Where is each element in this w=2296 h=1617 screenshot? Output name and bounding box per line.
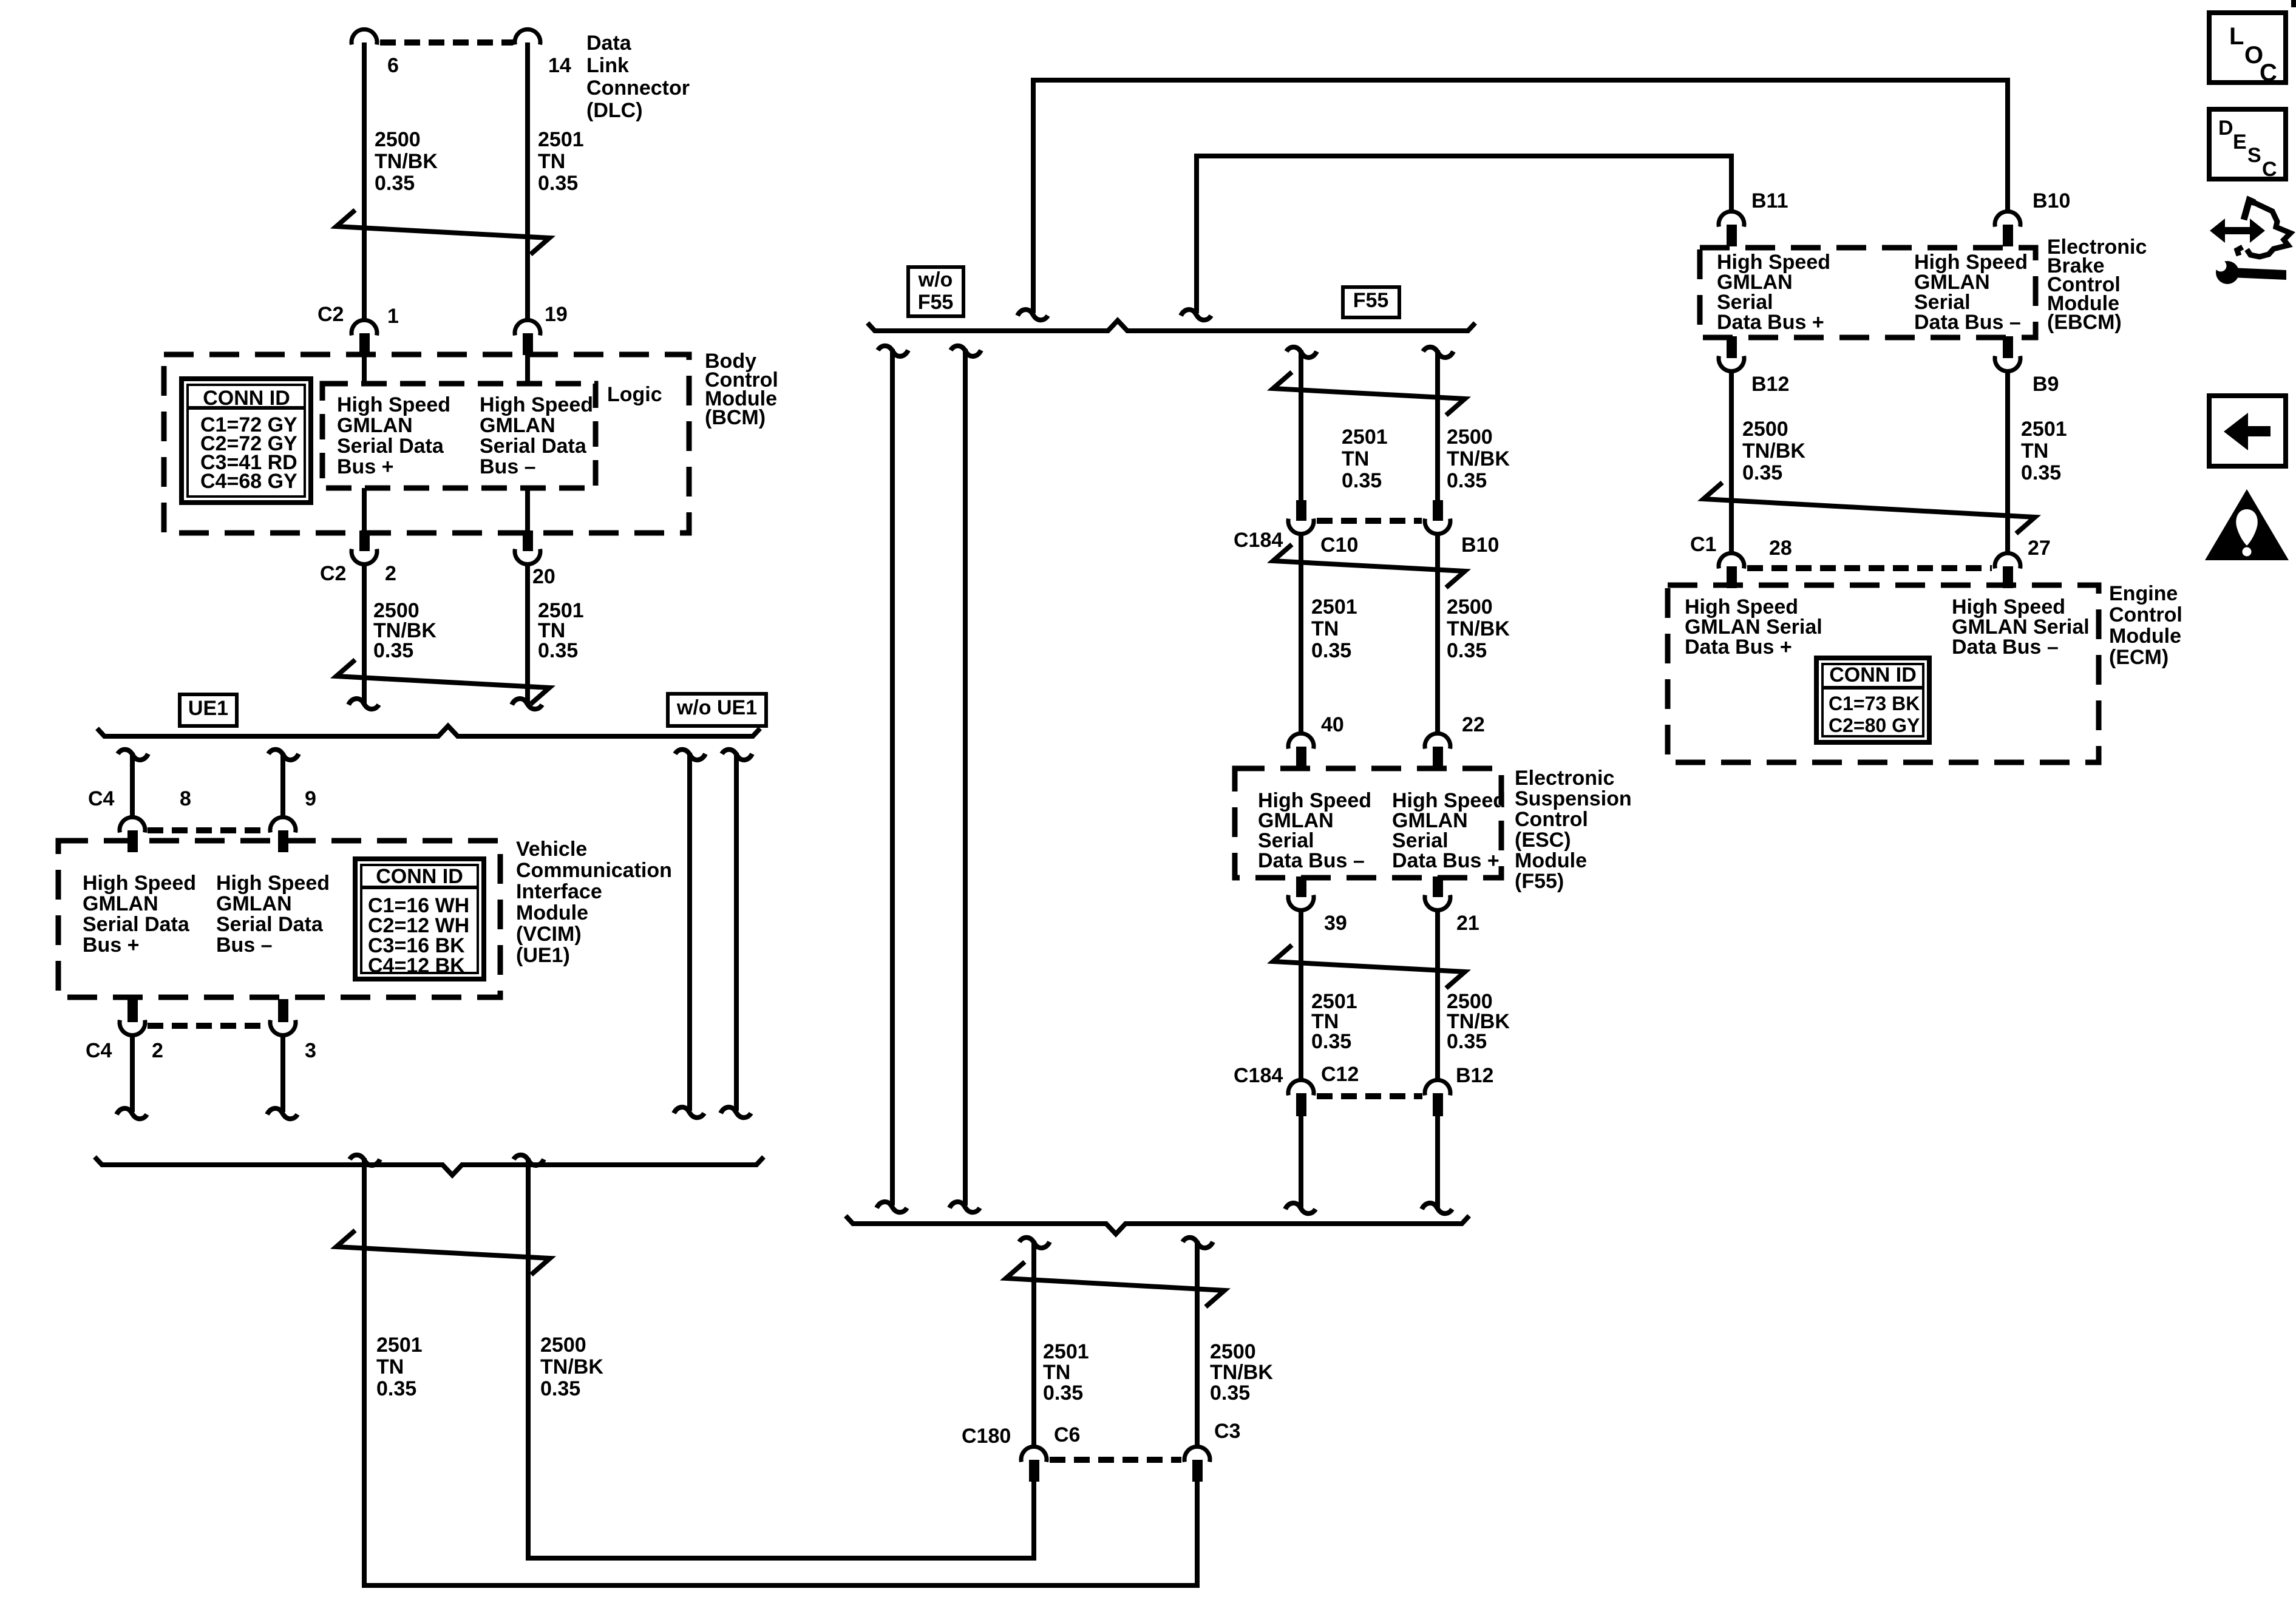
terminal C2 pin 20 [523,531,533,551]
harness crossover BCM wires [336,660,549,704]
option brace UE1 / w-o UE1 [97,726,760,736]
svg-text:TN: TN [2021,439,2048,463]
svg-text:C4: C4 [86,1039,112,1062]
svg-text:Control: Control [1515,808,1588,831]
svg-text:19: 19 [545,303,568,326]
svg-text:2500: 2500 [1742,418,1788,441]
terminal C2 pin 2 [359,531,370,551]
closing brace UE1 options [95,1157,764,1175]
harness crossover ESC lower [1273,945,1465,988]
svg-text:Data Bus +: Data Bus + [1392,849,1500,872]
inline connector C184 terminal B10 [1433,500,1443,521]
module box Engine Control Module (ECM) [1668,585,2099,762]
svg-text:Serial Data: Serial Data [337,435,444,458]
svg-text:C2=80 GY: C2=80 GY [1829,714,1920,736]
harness crossover EBCM wires [1703,483,2035,534]
svg-text:Communication: Communication [516,859,672,882]
wire end hook [877,1202,907,1212]
wire C12 down [1299,1116,1303,1208]
module box Vehicle Communication Interface Module (VCIM) [58,841,500,997]
wire stub pin19 into logic [525,355,530,384]
terminal pin 22 [1425,733,1450,748]
svg-text:GMLAN: GMLAN [480,414,555,437]
svg-text:(UE1): (UE1) [516,944,570,967]
inline connector C184 terminal C10 [1296,500,1306,521]
svg-text:C180: C180 [962,1425,1011,1448]
svg-text:0.35: 0.35 [1311,1030,1351,1053]
svg-text:2501: 2501 [1311,595,1357,619]
svg-text:F55: F55 [1353,289,1389,312]
svg-text:w/o UE1: w/o UE1 [676,696,757,719]
svg-text:TN: TN [538,150,565,173]
svg-text:Data Bus –: Data Bus – [1258,849,1365,872]
svg-text:CONN ID: CONN ID [376,865,463,888]
wire start hook [514,1155,544,1165]
wire end hook [117,1108,147,1119]
wire start hook [1423,347,1453,358]
wire end hook [267,1108,297,1119]
svg-text:2501: 2501 [1342,425,1388,449]
svg-text:(ESC): (ESC) [1515,829,1571,852]
svg-text:0.35: 0.35 [376,1377,416,1400]
inline connector C180 terminal C6 [1021,1446,1047,1462]
wire start hook [675,750,705,760]
option tag w/o F55 [908,267,963,316]
svg-text:27: 27 [2028,537,2051,560]
svg-text:Interface: Interface [516,880,602,903]
svg-text:2501: 2501 [538,128,584,151]
wire 2501 TN to C6 [1031,1241,1036,1446]
wire end hook [674,1107,704,1117]
CONN ID separator [1822,686,1923,690]
CONN ID separator [188,406,305,410]
wire end hook [1017,310,1048,320]
svg-text:B11: B11 [1751,189,1788,212]
svg-text:S: S [2247,144,2261,167]
connector dashed link C1 [1747,565,1992,571]
svg-text:C6: C6 [1054,1423,1080,1446]
svg-text:(F55): (F55) [1515,870,1564,893]
CONN ID separator [361,886,478,889]
svg-text:C12: C12 [1321,1063,1359,1086]
svg-text:Module: Module [516,901,588,924]
svg-text:0.35: 0.35 [538,639,578,662]
svg-text:High Speed: High Speed [480,393,593,416]
svg-text:14: 14 [548,54,571,77]
connector DLC pin 14 terminal [515,29,540,44]
harness crossover below F55 brace [1006,1262,1224,1307]
terminal C2 pin 19 [515,320,540,335]
wire 2501 TN DLC-to-BCM [525,42,530,320]
svg-text:0.35: 0.35 [1311,639,1351,662]
wire bus + run to EBCM B10 [1033,80,2008,313]
svg-text:TN: TN [376,1355,404,1378]
svg-text:TN: TN [1342,447,1369,470]
terminal pin 40 [1288,733,1314,748]
svg-text:0.35: 0.35 [538,172,578,195]
svg-text:0.35: 0.35 [1447,639,1487,662]
wire end hook [721,1107,751,1117]
svg-text:Logic: Logic [607,383,662,406]
connector dashed link C184 lower [1317,1093,1422,1099]
svg-text:TN/BK: TN/BK [1210,1361,1273,1384]
svg-text:(DLC): (DLC) [586,99,643,122]
harness crossover F55 upper [1273,372,1465,415]
svg-text:(VCIM): (VCIM) [516,923,582,946]
svg-text:21: 21 [1456,912,1479,935]
svg-text:B12: B12 [1751,373,1789,396]
wire VCIM pin 8 [130,753,135,817]
closing brace F55 options [846,1216,1469,1234]
terminal B9 [2003,336,2013,358]
svg-text:Engine: Engine [2109,582,2178,605]
wire end hook [1422,1203,1452,1213]
wire 2500 TN/BK ESC to B12 [1435,910,1440,1079]
svg-text:C4=12 BK: C4=12 BK [368,954,465,977]
svg-text:C4: C4 [88,787,115,810]
svg-text:3: 3 [305,1039,316,1062]
svg-text:C: C [2260,59,2277,86]
wire start hook [878,346,908,356]
icon warning triangle [2205,489,2289,560]
svg-text:2501: 2501 [1043,1340,1089,1363]
svg-text:1: 1 [387,305,399,328]
svg-text:C3: C3 [1214,1420,1240,1443]
wire 2501 TN BCM-to-splice [525,564,530,705]
wire 2500 TN/BK to B10 [1435,350,1440,500]
terminal C1 pin 27 [1995,553,2020,568]
wire VCIM pin 3 down [280,1035,285,1112]
svg-text:C: C [2262,158,2277,181]
svg-text:2501: 2501 [2021,418,2067,441]
svg-text:B12: B12 [1456,1064,1493,1087]
svg-text:(BCM): (BCM) [705,406,766,429]
svg-text:6: 6 [387,54,399,77]
wire 2501 TN EBCM-to-ECM [2005,371,2010,552]
svg-text:F55: F55 [918,291,954,314]
svg-text:E: E [2233,131,2247,154]
wire 2500 TN/BK splice-to-C6 [528,1158,1034,1558]
svg-text:Bus –: Bus – [216,934,273,957]
wire 2500 TN/BK DLC-to-BCM [362,42,367,320]
svg-text:Bus –: Bus – [480,455,536,478]
inline connector C180 terminal C3 [1184,1446,1210,1462]
svg-text:UE1: UE1 [188,697,228,720]
CONN ID table BCM [182,379,311,503]
option tag w/o UE1 [668,694,766,726]
inline connector C184 terminal C12 [1288,1080,1314,1095]
wire 2500 TN/BK BCM-to-splice [362,564,367,705]
svg-text:Electronic: Electronic [1515,767,1614,790]
harness crossover F55 mid [1273,544,1465,588]
svg-text:C184: C184 [1234,529,1283,552]
svg-text:High Speed: High Speed [216,872,330,895]
svg-text:0.35: 0.35 [1742,461,1782,484]
DLC connector dashed link [380,39,513,46]
icon box LOC [2209,13,2286,83]
svg-text:High Speed: High Speed [83,872,196,895]
svg-text:Data Bus –: Data Bus – [1952,636,2059,659]
terminal C4 pin 9 [270,817,296,832]
svg-text:TN: TN [1043,1361,1070,1384]
wire stub pin1 into logic [362,355,367,384]
bypass wire w/o F55 right [963,349,968,1205]
wire stub logic to pin2 [362,488,367,531]
svg-text:(ECM): (ECM) [2109,646,2169,669]
wire 2501 TN splice-to-C3 [364,1158,1197,1585]
option tag UE1 [180,694,237,726]
terminal B10 [1995,211,2020,226]
svg-text:Module: Module [1515,849,1587,872]
wire stub logic to pin20 [525,488,530,531]
terminal pin 21 [1433,876,1443,897]
svg-text:9: 9 [305,787,316,810]
wire 2501 TN to ESC 40 [1299,534,1303,733]
svg-text:20: 20 [532,565,555,588]
svg-text:Data Bus +: Data Bus + [1717,311,1824,334]
svg-text:2500: 2500 [540,1334,586,1357]
option brace w/o F55 / F55 [868,320,1475,331]
terminal C4 pin 3 [278,999,288,1022]
svg-text:40: 40 [1321,713,1344,736]
svg-text:L: L [2229,23,2244,50]
svg-text:GMLAN: GMLAN [216,892,292,915]
icon box back-arrow [2209,396,2286,466]
wire bus - run to EBCM B11 [1197,156,1731,313]
terminal C4 pin 2 [127,999,138,1022]
harness crossover DLC wires [336,210,549,254]
bypass wire w/o F55 left [890,349,895,1205]
svg-text:Bus +: Bus + [337,455,394,478]
page corner tick [2291,0,2296,7]
inline connector C184 terminal B12 [1425,1080,1450,1095]
svg-text:D: D [2218,117,2233,140]
wire start hook [268,750,299,760]
svg-text:C1: C1 [1690,533,1716,556]
svg-text:Vehicle: Vehicle [516,838,587,861]
svg-text:2500: 2500 [1447,425,1493,449]
svg-text:Bus +: Bus + [83,934,140,957]
connector dashed link C4 bottom [148,1023,268,1029]
bypass wire w/o UE1 right [734,753,739,1111]
svg-text:2500: 2500 [1447,595,1493,619]
svg-text:Control: Control [2109,603,2182,626]
svg-text:22: 22 [1462,713,1485,736]
connector dashed link C180 [1050,1457,1181,1463]
svg-text:Connector: Connector [586,76,690,100]
connector DLC pin 6 terminal [352,29,377,44]
module box Electronic Brake Control Module (EBCM) [1700,248,2036,337]
svg-text:0.35: 0.35 [1447,1030,1487,1053]
svg-text:C2: C2 [320,562,346,585]
svg-text:39: 39 [1324,912,1347,935]
svg-text:Serial Data: Serial Data [216,913,324,936]
svg-text:Suspension: Suspension [1515,787,1632,810]
svg-text:0.35: 0.35 [373,639,413,662]
svg-text:Serial Data: Serial Data [480,435,587,458]
terminal pin 39 [1296,876,1306,897]
wire B12 down [1435,1116,1440,1208]
wire VCIM pin 9 [280,753,285,817]
CONN ID table VCIM [355,859,484,979]
svg-text:2500: 2500 [1210,1340,1256,1363]
module box Electronic Suspension Control (ESC) Module (F55) [1235,768,1501,878]
wire 2501 TN to C10 [1299,350,1303,500]
svg-text:0.35: 0.35 [1210,1381,1250,1405]
wire start hook [1183,1238,1213,1248]
svg-text:GMLAN: GMLAN [337,414,413,437]
svg-text:TN/BK: TN/BK [1447,447,1510,470]
svg-text:0.35: 0.35 [1043,1381,1083,1405]
terminal C2 pin 1 [352,320,377,335]
module box Body Control Module (BCM) [164,354,689,533]
terminal C4 pin 8 [120,817,145,832]
svg-text:TN/BK: TN/BK [375,150,438,173]
wire start hook [1286,347,1317,358]
connector dashed link C184 upper [1317,518,1422,524]
wire end hook [512,699,542,709]
svg-text:B9: B9 [2033,373,2059,396]
svg-text:B10: B10 [1461,534,1499,557]
wire start hook [722,750,752,760]
svg-text:Module: Module [2109,625,2181,648]
CONN ID table ECM [1816,658,1929,742]
wire 2500 TN/BK to C3 [1195,1241,1200,1446]
svg-text:C10: C10 [1320,534,1358,557]
svg-text:0.35: 0.35 [540,1377,580,1400]
svg-text:0.35: 0.35 [1342,469,1382,492]
svg-text:2: 2 [385,562,396,585]
svg-text:8: 8 [180,787,191,810]
svg-text:C1=73 BK: C1=73 BK [1829,693,1920,714]
svg-text:TN/BK: TN/BK [540,1355,603,1378]
wire end hook [949,1202,980,1212]
svg-text:CONN ID: CONN ID [1829,663,1917,686]
svg-text:0.35: 0.35 [1447,469,1487,492]
svg-text:0.35: 0.35 [2021,461,2061,484]
wire 2500 TN/BK EBCM-to-ECM [1729,371,1734,552]
svg-text:Link: Link [586,54,629,77]
svg-text:TN/BK: TN/BK [1742,439,1805,463]
wire 2501 TN ESC to C12 [1299,910,1303,1079]
svg-text:2: 2 [152,1039,163,1062]
wire end hook [1285,1203,1316,1213]
wire VCIM pin 2 down [130,1035,135,1112]
wire 2500 TN/BK to ESC 22 [1435,534,1440,733]
svg-text:Data Bus +: Data Bus + [1685,636,1792,659]
icon box DESC [2209,109,2286,179]
svg-text:Serial Data: Serial Data [83,913,190,936]
svg-text:B10: B10 [2033,189,2070,212]
svg-text:2501: 2501 [376,1334,423,1357]
svg-text:(EBCM): (EBCM) [2047,311,2122,334]
svg-text:GMLAN: GMLAN [83,892,158,915]
terminal C1 pin 28 [1719,553,1744,568]
svg-text:High Speed: High Speed [337,393,450,416]
wire start hook [951,346,981,356]
terminal B12 [1727,336,1737,358]
svg-text:TN: TN [1311,617,1339,640]
wire end hook [348,699,379,709]
svg-text:28: 28 [1769,537,1792,560]
svg-text:C184: C184 [1234,1064,1283,1087]
wire start hook [1019,1238,1050,1248]
svg-text:Data: Data [586,32,632,55]
svg-text:2500: 2500 [375,128,421,151]
svg-text:TN/BK: TN/BK [1447,617,1510,640]
option tag F55 [1343,287,1399,317]
svg-text:C4=68 GY: C4=68 GY [200,470,297,493]
wire start hook [118,750,148,760]
svg-text:C2: C2 [318,303,344,326]
svg-text:0.35: 0.35 [375,172,415,195]
wire start hook [350,1155,380,1165]
logic block dashed box [322,384,596,488]
wire end hook [1181,310,1211,320]
terminal B11 [1719,211,1744,226]
svg-text:Data Bus –: Data Bus – [1914,311,2021,334]
bypass wire w/o UE1 left [687,753,692,1111]
icon adjust/repair (arrow, part outline, wrench) [2210,200,2291,284]
harness crossover below UE1 brace [336,1230,550,1275]
left arrow glyph [2246,426,2271,436]
connector dashed link C4 top [148,827,268,833]
svg-text:w/o: w/o [918,268,953,291]
